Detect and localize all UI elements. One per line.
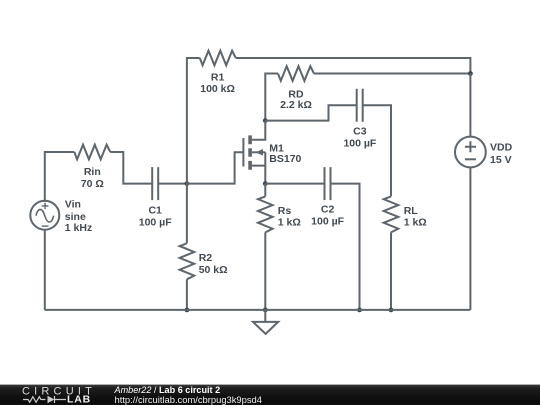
transistor M1 channel segments	[248, 135, 252, 169]
transistor M1 body lead	[252, 151, 265, 153]
wire Rs to ground rail	[264, 232, 266, 310]
svg-text:50 kΩ: 50 kΩ	[199, 264, 228, 276]
node RL ground junction	[389, 308, 394, 313]
svg-text:100 µF: 100 µF	[139, 216, 172, 228]
node Rs ground junction	[263, 308, 268, 313]
node R2 ground junction	[185, 308, 190, 313]
capacitor C1	[152, 167, 158, 200]
wire Vin top to Rin	[45, 152, 75, 202]
svg-text:Rin: Rin	[84, 166, 101, 178]
wire drain node to C3	[265, 105, 356, 120]
source VDD plus sign	[465, 141, 476, 152]
wire R1 to VDD node	[236, 58, 471, 74]
source Vin minus sign	[42, 225, 49, 227]
svg-text:70 Ω: 70 Ω	[81, 178, 104, 190]
svg-text:Rs: Rs	[278, 205, 292, 217]
wire Vin bottom to ground rail	[44, 230, 46, 310]
resistor RL	[384, 196, 399, 232]
wire junction down to R2	[186, 184, 188, 244]
resistor Rin	[74, 145, 110, 160]
node VDD junction	[468, 71, 473, 76]
wire RL to ground rail	[390, 232, 392, 310]
ground symbol	[253, 310, 278, 334]
wire VDD to ground rail	[469, 167, 471, 310]
svg-text:BS170: BS170	[269, 153, 301, 165]
node gate junction	[185, 181, 190, 186]
source Vin plus sign	[42, 203, 49, 209]
wire junction up to R1	[187, 58, 200, 184]
svg-text:R1: R1	[211, 72, 225, 84]
capacitor C3	[357, 89, 363, 122]
resistor Rs	[258, 196, 273, 232]
wire C3 to RL	[363, 105, 391, 196]
resistor R1	[200, 51, 236, 66]
source Vin sine wave	[36, 209, 54, 222]
resistor R2	[180, 243, 195, 279]
svg-text:R2: R2	[199, 252, 213, 264]
wire source to C2	[265, 183, 324, 185]
svg-text:sine: sine	[65, 211, 86, 223]
svg-text:Vin: Vin	[65, 199, 81, 211]
wire ground rail	[45, 309, 471, 311]
svg-text:2.2 kΩ: 2.2 kΩ	[280, 99, 312, 111]
wire C2 to ground rail	[331, 184, 360, 310]
svg-text:1 kHz: 1 kHz	[65, 222, 92, 234]
svg-text:C2: C2	[321, 204, 335, 216]
logo resistor-diode glyph	[23, 396, 66, 403]
wire RD to VDD node	[314, 73, 470, 75]
transistor M1 drain lead	[252, 121, 265, 140]
svg-text:15 V: 15 V	[490, 154, 512, 166]
wire source to Rs	[264, 184, 266, 197]
wire drain node up to RD	[265, 74, 278, 121]
wire C1 to gate node	[158, 183, 187, 185]
svg-text:VDD: VDD	[490, 141, 513, 153]
source VDD minus sign	[465, 158, 476, 160]
svg-text:1 kΩ: 1 kΩ	[278, 217, 301, 229]
wire R2 to ground rail	[186, 279, 188, 310]
svg-text:RL: RL	[404, 205, 419, 217]
svg-text:http://circuitlab.com/cbrpug3k: http://circuitlab.com/cbrpug3k9psd4	[115, 394, 262, 405]
svg-text:100 µF: 100 µF	[343, 137, 376, 149]
wire gate lead	[187, 152, 244, 183]
transistor M1 gate bar	[242, 138, 244, 167]
node C2 ground junction	[357, 308, 362, 313]
transistor M1 source lead	[252, 152, 265, 183]
svg-text:LAB: LAB	[67, 394, 91, 405]
node drain junction	[263, 118, 268, 123]
svg-text:C3: C3	[353, 126, 367, 138]
svg-text:1 kΩ: 1 kΩ	[404, 217, 427, 229]
logo diode triangle	[48, 396, 55, 403]
transistor M1 body arrow	[256, 149, 263, 156]
wire VDD node to VDD source	[469, 74, 471, 137]
resistor RD	[278, 66, 314, 81]
svg-text:100 µF: 100 µF	[311, 216, 344, 228]
source Vin circle	[30, 201, 59, 230]
svg-text:C1: C1	[148, 205, 162, 217]
node source junction	[263, 181, 268, 186]
svg-text:100 kΩ: 100 kΩ	[200, 83, 235, 95]
source VDD circle	[455, 137, 486, 168]
capacitor C2	[325, 167, 331, 200]
wire Rin to C1	[110, 152, 152, 184]
